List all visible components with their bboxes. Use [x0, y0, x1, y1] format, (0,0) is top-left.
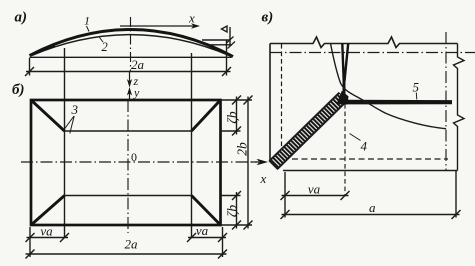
- svg-text:2a: 2a: [125, 237, 139, 252]
- svg-text:νa: νa: [40, 224, 53, 239]
- svg-text:x: x: [260, 171, 267, 186]
- svg-text:νa: νa: [308, 182, 321, 197]
- svg-text:4: 4: [361, 139, 368, 154]
- svg-text:a: a: [369, 200, 376, 215]
- svg-text:2a: 2a: [131, 57, 145, 72]
- svg-text:1: 1: [84, 14, 90, 28]
- svg-text:5: 5: [413, 80, 420, 95]
- svg-text:ζb: ζb: [225, 205, 240, 217]
- svg-text:x: x: [188, 11, 195, 26]
- svg-text:y: y: [133, 86, 140, 100]
- svg-text:2b: 2b: [235, 142, 250, 156]
- svg-text:3: 3: [71, 102, 79, 117]
- svg-text:б): б): [12, 82, 24, 98]
- svg-text:а): а): [15, 10, 28, 26]
- svg-text:ζb: ζb: [225, 111, 240, 123]
- svg-text:νa: νa: [196, 223, 209, 238]
- svg-text:в): в): [262, 10, 274, 26]
- svg-text:0: 0: [131, 150, 137, 164]
- svg-text:2: 2: [102, 40, 108, 54]
